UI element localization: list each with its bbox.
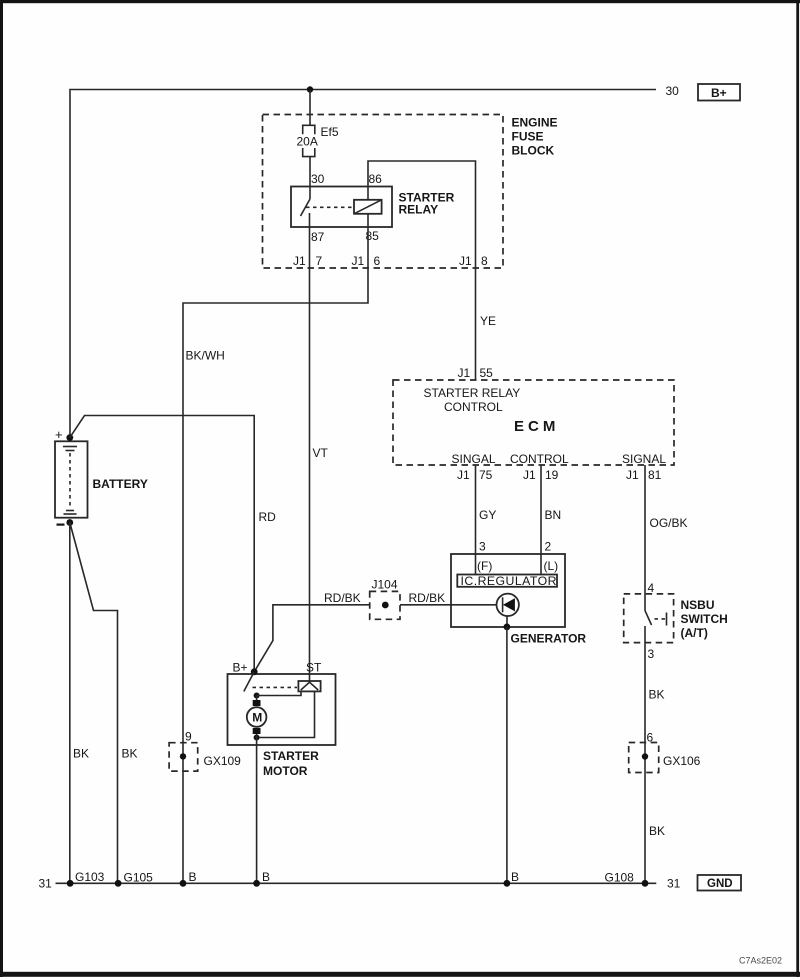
wire fuse to relay pin 30 — [309, 157, 311, 187]
svg-text:B: B — [262, 870, 270, 884]
wire battery - branch BK to G105 — [70, 523, 118, 884]
wire battery + to RD feed — [70, 416, 254, 672]
svg-text:20A: 20A — [297, 135, 318, 149]
svg-text:81: 81 — [648, 468, 662, 482]
svg-text:30: 30 — [311, 172, 325, 186]
svg-text:FUSE: FUSE — [512, 130, 544, 144]
IC regulator box — [457, 574, 557, 588]
wire battery - BK to G103 — [69, 523, 71, 884]
svg-text:RD/BK: RD/BK — [324, 591, 361, 605]
svg-text:86: 86 — [369, 172, 383, 186]
svg-text:GY: GY — [479, 508, 496, 522]
svg-text:4: 4 — [648, 581, 655, 595]
svg-text:G103: G103 — [75, 870, 105, 884]
svg-text:3: 3 — [479, 540, 486, 554]
NSBU switch dashed box — [624, 594, 674, 643]
wire top power rail 30 — [70, 90, 656, 438]
node switch lower contact — [254, 693, 260, 699]
svg-text:2: 2 — [545, 540, 552, 554]
engine fuse block dashed box — [263, 115, 504, 269]
svg-text:YE: YE — [480, 314, 496, 328]
connector J1 75 label — [457, 468, 493, 482]
svg-text:BATTERY: BATTERY — [93, 477, 148, 491]
svg-text:B+: B+ — [233, 661, 248, 675]
svg-text:BK: BK — [122, 747, 138, 761]
pin L stub — [540, 554, 542, 575]
svg-text:IC.REGULATOR: IC.REGULATOR — [461, 574, 558, 588]
wire pin 87 down to J1 7 — [309, 227, 311, 268]
node B (generator ground) — [504, 880, 511, 887]
frame top border — [0, 0, 800, 3]
svg-text:BN: BN — [545, 508, 562, 522]
ECM dashed box — [393, 380, 674, 465]
svg-text:GENERATOR: GENERATOR — [511, 632, 587, 646]
svg-text:9: 9 — [185, 730, 192, 744]
ground splice GX106 — [629, 731, 701, 773]
battery B1 — [55, 441, 88, 517]
pin F stub — [475, 554, 477, 575]
ground splice GX109 — [169, 730, 241, 772]
node B (starter ground) — [253, 880, 260, 887]
svg-text:M: M — [252, 711, 262, 725]
svg-text:6: 6 — [647, 731, 654, 745]
svg-text:Ef5: Ef5 — [321, 125, 339, 139]
node motor bottom — [254, 735, 260, 741]
svg-text:3: 3 — [648, 647, 655, 661]
node GND box — [698, 875, 742, 891]
starter relay K box — [291, 187, 392, 228]
svg-text:RD: RD — [259, 510, 277, 524]
svg-text:+: + — [55, 427, 63, 442]
svg-text:55: 55 — [480, 366, 494, 380]
node G105 — [115, 880, 122, 887]
connector J1 8 label — [459, 254, 488, 268]
label NSBU SWITCH (A/T) — [681, 598, 728, 640]
label STARTER RELAY CONTROL — [424, 386, 521, 414]
svg-text:J1: J1 — [523, 468, 536, 482]
node B+ starter — [251, 668, 258, 675]
svg-text:NSBU: NSBU — [681, 598, 715, 612]
generator bottom node — [506, 616, 508, 627]
label STARTER RELAY — [399, 191, 455, 217]
svg-text:ST: ST — [306, 661, 322, 675]
svg-text:CONTROL: CONTROL — [510, 452, 569, 466]
node G103 — [67, 880, 74, 887]
svg-text:CONTROL: CONTROL — [444, 400, 503, 414]
svg-text:BK/WH: BK/WH — [186, 349, 225, 363]
wire contact to ST loop — [257, 691, 301, 695]
svg-text:19: 19 — [545, 468, 559, 482]
svg-text:STARTER RELAY: STARTER RELAY — [424, 386, 521, 400]
label STARTER MOTOR — [263, 749, 319, 778]
svg-text:J1: J1 — [626, 468, 639, 482]
ST terminal symbol — [298, 681, 320, 691]
wire RD/BK from J104 to generator — [400, 604, 497, 606]
frame bottom border — [0, 972, 800, 977]
node B+ box — [698, 84, 740, 101]
svg-text:31: 31 — [39, 877, 53, 891]
relay coil — [354, 187, 382, 228]
wire generator to ground rail — [506, 627, 508, 883]
svg-text:J1: J1 — [457, 468, 470, 482]
wire pin 86 up and over to J1 8 — [368, 161, 476, 268]
wire starter motor to ground rail — [256, 738, 258, 884]
ground rail 31 — [56, 882, 657, 884]
svg-text:GX109: GX109 — [204, 754, 242, 768]
svg-text:J1: J1 — [293, 254, 306, 268]
wire J1 7 VT down to starter ST — [309, 268, 311, 683]
connector J104 — [370, 578, 400, 620]
node junction on top rail — [307, 86, 313, 92]
connector J1 7 label — [293, 254, 323, 268]
svg-text:J1: J1 — [459, 254, 472, 268]
generator G1 box — [451, 554, 565, 627]
svg-text:SWITCH: SWITCH — [681, 612, 728, 626]
svg-text:OG/BK: OG/BK — [650, 516, 688, 530]
wire J1 6 BK/WH down-left-down — [183, 268, 368, 883]
wire from rail to fuse Ef5 — [309, 90, 311, 126]
svg-text:VT: VT — [313, 446, 329, 460]
svg-text:SINGAL: SINGAL — [452, 452, 496, 466]
relay switch contact — [301, 187, 311, 228]
battery + terminal — [66, 434, 73, 441]
svg-text:BK: BK — [649, 688, 665, 702]
svg-text:ENGINE: ENGINE — [512, 116, 558, 130]
svg-text:G108: G108 — [605, 871, 635, 885]
fuse Ef5 20A — [297, 125, 339, 157]
relay actuation dashed line — [306, 206, 353, 208]
svg-text:B: B — [189, 870, 197, 884]
svg-text:(F): (F) — [477, 559, 492, 573]
wire BN from J1 19 to generator L — [540, 465, 542, 554]
svg-text:7: 7 — [316, 254, 323, 268]
frame right border — [796, 0, 799, 977]
starter switch dashed actuation — [253, 686, 298, 688]
svg-text:(A/T): (A/T) — [681, 626, 708, 640]
svg-text:31: 31 — [667, 877, 681, 891]
svg-text:GND: GND — [707, 878, 733, 890]
svg-text:6: 6 — [374, 254, 381, 268]
svg-text:BK: BK — [649, 824, 665, 838]
svg-text:RELAY: RELAY — [399, 203, 439, 217]
svg-text:BK: BK — [73, 747, 89, 761]
connector J1 81 label — [626, 468, 662, 482]
svg-text:MOTOR: MOTOR — [263, 764, 308, 778]
NSBU switch contact — [645, 611, 667, 626]
diode D1 in generator — [497, 594, 519, 616]
svg-text:J104: J104 — [372, 578, 398, 592]
starter solenoid switch arm — [244, 672, 254, 692]
svg-text:B: B — [511, 870, 519, 884]
svg-text:(L): (L) — [544, 559, 559, 573]
svg-text:ECM: ECM — [514, 418, 559, 435]
svg-text:8: 8 — [481, 254, 488, 268]
node G108 — [642, 880, 649, 887]
svg-text:C7As2E02: C7As2E02 — [739, 956, 782, 966]
connector J1 55 label — [458, 366, 494, 380]
wire pin 85 down to J1 6 — [367, 227, 369, 268]
motor M armature — [247, 696, 267, 738]
svg-text:SIGNAL: SIGNAL — [622, 452, 666, 466]
svg-text:G105: G105 — [124, 871, 154, 885]
wire J1 8 YE down to ECM J1 55 — [475, 268, 477, 380]
battery - terminal — [66, 519, 73, 526]
svg-text:BLOCK: BLOCK — [512, 144, 555, 158]
connector J1 6 label — [352, 254, 381, 268]
wire GY from J1 75 to generator F — [475, 465, 477, 554]
svg-text:75: 75 — [479, 468, 493, 482]
svg-text:B+: B+ — [711, 86, 727, 100]
node B (BK/WH ground) — [180, 880, 187, 887]
svg-text:STARTER: STARTER — [263, 749, 319, 763]
wire ST coil return — [257, 691, 315, 737]
svg-text:J1: J1 — [458, 366, 471, 380]
frame left border — [0, 0, 3, 977]
svg-text:87: 87 — [311, 230, 325, 244]
wire RD/BK from B+ to J104 — [254, 605, 370, 672]
connector J1 19 label — [523, 468, 559, 482]
starter motor box — [228, 674, 336, 745]
wire OG/BK from J1 81 to NSBU pin 4 — [644, 465, 646, 611]
svg-text:GX106: GX106 — [663, 754, 701, 768]
svg-text:J1: J1 — [352, 254, 365, 268]
label ENGINE FUSE BLOCK — [512, 116, 558, 158]
svg-text:30: 30 — [666, 84, 680, 98]
wire NSBU pin 3 BK down — [644, 626, 646, 883]
svg-text:RD/BK: RD/BK — [409, 591, 446, 605]
